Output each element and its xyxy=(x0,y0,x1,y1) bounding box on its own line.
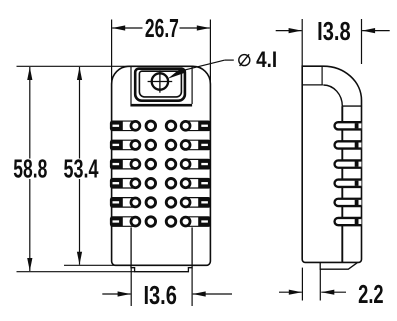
label leader arrowhead xyxy=(168,67,185,79)
svg-text:4.I: 4.I xyxy=(256,47,277,72)
vent hole M1a xyxy=(146,121,156,131)
svg-text:53.4: 53.4 xyxy=(64,154,99,184)
side vent fin 5 inner bar xyxy=(355,200,359,205)
vent slot R1 dark bar xyxy=(198,121,210,131)
vent slot L3 slit xyxy=(113,163,120,165)
vent slot R4 slit xyxy=(201,182,208,184)
label leader horizontal xyxy=(225,59,234,61)
side bottom tab xyxy=(320,262,357,269)
vent slot L5 slit xyxy=(113,201,120,203)
vent slot R3 dark bar xyxy=(198,159,210,169)
side vent fin 2 xyxy=(335,141,362,148)
dim 2.2 extension right xyxy=(319,270,321,301)
dim 53.4 line lower xyxy=(79,179,81,265)
vent hole M3b xyxy=(166,159,176,169)
vent hole M2a xyxy=(146,140,156,150)
label leader diagonal xyxy=(181,60,225,71)
svg-text:I3.6: I3.6 xyxy=(143,280,177,310)
window bezel outer xyxy=(135,69,185,101)
vent slot L4 dark bar xyxy=(111,179,123,189)
vent slot L6 dark bar xyxy=(111,217,123,227)
dim 53.4 line upper xyxy=(79,67,81,159)
vent slot L4 slit xyxy=(113,182,120,184)
vent slot R2 outline xyxy=(186,140,211,150)
vent slot R2 slit xyxy=(201,144,208,146)
dim 26.7 line right segment xyxy=(180,27,210,29)
dim 13.6 extension left xyxy=(130,268,132,306)
svg-text:26.7: 26.7 xyxy=(145,13,179,43)
dim 13.6 left arrow xyxy=(102,293,130,295)
vent slot L3 outline xyxy=(111,159,136,169)
side vent fin 2 inner bar xyxy=(355,142,359,147)
dim 53.4 bottom extension xyxy=(64,264,115,266)
dim 58.8 line lower xyxy=(29,179,31,271)
front crown bottom bar xyxy=(130,104,192,107)
side vent fin 4 xyxy=(335,180,362,187)
vent slot R5 slit xyxy=(201,201,208,203)
vent slot L1 outline xyxy=(111,121,136,131)
dim 2.2 extension left xyxy=(301,268,303,301)
front crown right side xyxy=(191,66,193,104)
vent hole M4a xyxy=(146,179,156,189)
front crown left side xyxy=(130,66,132,104)
vent slot L1 dark bar xyxy=(111,121,123,131)
vent slot L1 slit xyxy=(113,125,120,127)
side vent fin 3 inner bar xyxy=(355,162,359,167)
side vent fin 1 xyxy=(335,122,362,129)
vent slot L2 dark bar xyxy=(111,140,123,150)
dim 26.7 extension line right xyxy=(209,20,211,85)
dim 2.2 left arrow xyxy=(279,291,302,293)
dim 2.2 right arrow xyxy=(321,291,346,293)
side vent fin 4 inner bar xyxy=(355,181,359,186)
vent slot L1 ring xyxy=(131,121,140,130)
svg-text:I3.8: I3.8 xyxy=(317,16,351,46)
vent slot R1 ring xyxy=(181,121,190,130)
vent slot L5 dark bar xyxy=(111,198,123,208)
vent hole M6b xyxy=(166,217,176,227)
dim 13.8 left arrow xyxy=(276,30,302,32)
vent slot L6 ring xyxy=(131,217,140,226)
side vent fin 5 xyxy=(335,199,362,206)
vent slot R3 slit xyxy=(201,163,208,165)
vent slot L6 outline xyxy=(111,217,136,227)
side vent fin 1 inner bar xyxy=(355,123,359,128)
hole crosshair vertical xyxy=(159,70,161,92)
vent slot L2 slit xyxy=(113,144,120,146)
vent slot R6 ring xyxy=(181,217,190,226)
hole crosshair horizontal xyxy=(148,81,173,83)
right inner vertical below vents xyxy=(191,227,193,265)
vent slot R5 dark bar xyxy=(198,198,210,208)
vent slot L2 ring xyxy=(131,141,140,150)
front bottom tab xyxy=(131,265,192,271)
svg-text:58.8: 58.8 xyxy=(13,154,47,184)
sensor hole ring xyxy=(152,73,168,89)
vent slot L4 outline xyxy=(111,179,136,189)
vent slot L3 ring xyxy=(131,160,140,169)
vent hole M3a xyxy=(146,159,156,169)
vent slot R2 dark bar xyxy=(198,140,210,150)
dim 26.7 line left segment xyxy=(112,27,142,29)
side lid horizontal xyxy=(302,84,323,86)
side lid vertical xyxy=(321,66,323,85)
diameter symbol xyxy=(239,54,250,66)
vent hole M1b xyxy=(166,121,176,131)
vent slot R5 ring xyxy=(181,198,190,207)
vent slot R3 outline xyxy=(186,159,211,169)
side vent fin 6 xyxy=(335,218,362,225)
dim 13.6 right arrow xyxy=(193,293,232,295)
vent slot L5 ring xyxy=(131,198,140,207)
side view outline xyxy=(302,66,361,262)
vent slot L6 slit xyxy=(113,220,120,222)
vent slot L5 outline xyxy=(111,198,136,208)
vent hole M2b xyxy=(166,140,176,150)
top-left extension line (body top) xyxy=(17,65,131,67)
vent slot R4 ring xyxy=(181,179,190,188)
dim 13.8 right arrow xyxy=(362,30,390,32)
vent hole M6a xyxy=(146,217,156,227)
side vent fin 6 inner bar xyxy=(355,219,359,224)
side inner horizontal xyxy=(342,105,361,107)
vent hole M4b xyxy=(166,179,176,189)
vent slot L2 outline xyxy=(111,140,136,150)
dim 58.8 bottom extension xyxy=(17,271,135,273)
vent slot R4 outline xyxy=(186,179,211,189)
vent slot R6 slit xyxy=(201,220,208,222)
dim 13.6 extension right xyxy=(191,268,193,306)
vent slot R4 dark bar xyxy=(198,179,210,189)
vent slot R2 ring xyxy=(181,141,190,150)
window bezel inner xyxy=(139,71,181,97)
vent slot R6 dark bar xyxy=(198,217,210,227)
vent hole M5a xyxy=(146,198,156,208)
vent slot R6 outline xyxy=(186,217,211,227)
vent slot R1 slit xyxy=(201,125,208,127)
side inner vertical wall xyxy=(341,106,343,262)
dim 13.8 extension right xyxy=(361,19,363,64)
left inner vertical below vents xyxy=(130,227,132,265)
vent slot R5 outline xyxy=(186,198,211,208)
dim 26.7 extension line left xyxy=(111,20,113,85)
vent slot R1 outline xyxy=(186,121,211,131)
vent slot L4 ring xyxy=(131,179,140,188)
vent hole M5b xyxy=(166,198,176,208)
dim 13.8 extension left xyxy=(301,19,303,66)
side vent fin 3 xyxy=(335,160,362,167)
side inner arc xyxy=(323,85,342,106)
vent slot L3 dark bar xyxy=(111,159,123,169)
svg-text:2.2: 2.2 xyxy=(358,279,384,309)
dim 58.8 line upper xyxy=(29,67,31,159)
front view body outline xyxy=(112,66,211,265)
vent slot R3 ring xyxy=(181,160,190,169)
